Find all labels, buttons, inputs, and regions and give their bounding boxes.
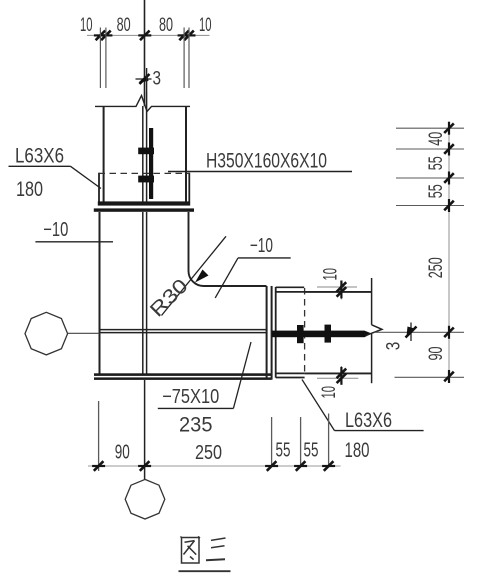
web splice plate (column) [149, 128, 153, 199]
svg-text:L63X6: L63X6 [15, 144, 64, 168]
dim 10 top flange: dimension line [340, 281, 342, 300]
svg-text:55: 55 [304, 440, 319, 462]
R30 leader line [162, 236, 227, 315]
splice angle L63X6 on beam: top edges [276, 287, 305, 292]
svg-text:250: 250 [426, 257, 447, 278]
leader line for -75X10 [233, 342, 251, 408]
grid bubble octagon (bottom) [125, 479, 165, 519]
joint end plate (upper) [98, 201, 190, 205]
svg-text:3: 3 [384, 342, 405, 351]
svg-text:R30: R30 [146, 275, 193, 322]
top extension lines right flange [184, 28, 189, 89]
underline for L63X6 (bottom right) [335, 430, 424, 432]
title character 三 [206, 538, 226, 560]
bolt (beam splice, left) [297, 325, 304, 343]
svg-text:−10: −10 [43, 219, 68, 241]
right extension line (beam web) [375, 331, 465, 333]
beam top flange [304, 291, 371, 293]
bolt (column splice, lower) [138, 176, 154, 183]
knee column web (double line) [143, 212, 147, 374]
column web centerline (upper) [144, 0, 146, 106]
svg-text:235: 235 [179, 413, 213, 437]
svg-text:10: 10 [80, 15, 93, 36]
beam bottom flange [305, 372, 372, 374]
top dimension line [87, 34, 210, 36]
dim 10 bottom flange: ticks [337, 367, 347, 385]
weld symbol 3 (right, on beam web) [406, 323, 417, 342]
splice angle L63X6 on beam: hidden leg dashed edge [304, 288, 306, 376]
splice angle L63X6 on column: right edge [188, 173, 190, 202]
svg-text:3: 3 [153, 69, 162, 90]
weld symbol 3 (top, on column web) [136, 68, 152, 92]
joint end plate (lower) [94, 208, 194, 211]
knee beam web (double line) [100, 330, 267, 333]
leader line for L63X6 (bottom right) [302, 380, 335, 431]
right extension line (beam bottom) [395, 376, 465, 378]
bolt (column splice, upper) [138, 148, 154, 155]
bottom extension line / web centerline to grid bubble [144, 380, 146, 479]
title character 图 [181, 537, 201, 564]
grid axis line (left) [68, 332, 100, 334]
bottom dimension ticks [92, 461, 335, 471]
bottom extension line (bolt 1) [300, 417, 302, 466]
svg-text:L63X6: L63X6 [345, 408, 392, 432]
svg-text:H350X160X6X10: H350X160X6X10 [206, 150, 327, 173]
splice angle L63X6 on column: left edge [98, 173, 100, 202]
bottom dimension line [88, 465, 341, 467]
dim 10 top flange: ticks [337, 281, 347, 299]
svg-text:90: 90 [426, 347, 447, 361]
knee inner flange with R30 fillet [189, 212, 267, 286]
top dimension ticks [94, 31, 196, 41]
leader line for -10 (left) [35, 241, 113, 243]
splice angle L63X6 on beam: bottom edges [276, 373, 305, 377]
dim 10 bottom flange: dimension line [340, 366, 342, 384]
leader line for -10 (middle) [215, 258, 238, 298]
svg-text:80: 80 [159, 15, 173, 36]
grid bubble octagon (left) [25, 312, 68, 355]
right dimension chain line [448, 128, 450, 377]
bolt (beam splice, right) [325, 325, 332, 343]
splice angle L63X6 on column: hidden leg dashed top edge [99, 172, 190, 174]
upper column left flange [103, 107, 105, 202]
dim 10 top flange: extension line [317, 286, 357, 288]
underline for -75X10 [158, 407, 234, 409]
beam break line (cut symbol) [366, 278, 382, 383]
R30 arrowhead [195, 270, 209, 283]
svg-text:−10: −10 [250, 235, 273, 257]
top extension lines left flange [100, 28, 106, 89]
svg-text:−75X10: −75X10 [162, 386, 219, 408]
knee bottom flange plate [94, 373, 272, 380]
leader line for L63X6 (top left) [71, 166, 102, 188]
column break line (cut symbol) [95, 96, 190, 112]
upper column web (double line) [143, 92, 147, 202]
svg-text:80: 80 [117, 15, 131, 36]
svg-text:10: 10 [199, 15, 212, 36]
right extension lines (splice levels) [396, 128, 464, 205]
right dimension ticks [444, 122, 454, 383]
splice angle L63X6 on beam: left edge [275, 287, 277, 378]
beam joint end plate line (right) [271, 286, 273, 380]
svg-text:10: 10 [319, 386, 340, 399]
beam web splice plate [272, 331, 365, 338]
title underline [179, 570, 231, 572]
underline for L63X6 (top left) [9, 165, 71, 167]
svg-text:40: 40 [426, 132, 447, 146]
underline for -10 (middle) [238, 257, 291, 259]
bottom extension line (beam joint) [271, 417, 273, 466]
beam web splice plate taper [365, 331, 372, 338]
dim 10 bottom flange: extension line [317, 377, 358, 379]
svg-text:10: 10 [321, 268, 342, 281]
svg-text:55: 55 [426, 156, 447, 170]
svg-text:180: 180 [345, 438, 370, 462]
svg-text:90: 90 [115, 442, 130, 464]
svg-text:55: 55 [276, 440, 291, 462]
svg-text:250: 250 [195, 442, 222, 464]
svg-text:180: 180 [16, 177, 43, 201]
bottom extension line (bolt 2) [328, 414, 330, 467]
svg-text:55: 55 [426, 184, 447, 198]
knee left flange [99, 212, 101, 374]
leader line for H350X160X6X10 [168, 171, 352, 173]
upper column right flange [185, 107, 187, 202]
beam joint end plate line (left) [266, 286, 268, 380]
bottom extension line (left flange) [98, 401, 100, 471]
